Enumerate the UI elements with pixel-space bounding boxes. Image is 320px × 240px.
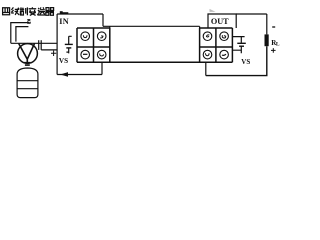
- char 线: [11, 7, 19, 15]
- wire IN to OUT (top interconnect): [103, 25, 200, 27]
- terminal screw IN top-right: [97, 32, 106, 41]
- OUT terminal grid frame: [200, 28, 233, 62]
- IN loop right drop: [102, 14, 104, 26]
- char 器: [46, 8, 54, 16]
- sensor tag glyph (small dark mark above transmitter bracket): [27, 20, 30, 24]
- terminal screw OUT bottom-left: [203, 50, 212, 59]
- char 送: [37, 7, 45, 15]
- battery VS (OUT side) top wire: [232, 37, 244, 43]
- bottom return wire to RL: [206, 46, 267, 75]
- IN loop left vertical wire: [56, 14, 58, 75]
- transmitter bracket outer L: [11, 23, 30, 44]
- terminal screw IN top-left: [81, 32, 90, 41]
- OUT bottom stub: [205, 62, 207, 75]
- IN loop top wire: [57, 13, 103, 15]
- char 变: [29, 7, 37, 15]
- plus label at RL: [271, 48, 276, 53]
- IN terminal grid frame: [77, 28, 110, 62]
- battery VS (OUT side) long plate: [237, 42, 246, 44]
- terminal screw OUT bottom-right: [220, 50, 229, 59]
- connector bar 2: [40, 40, 42, 50]
- terminal screw IN bottom-left: [81, 50, 90, 59]
- drop into OUT grid left edge: [199, 26, 201, 28]
- OUT label box: [208, 14, 236, 28]
- terminal screw OUT top-right: [220, 32, 229, 41]
- char 四: [3, 8, 10, 15]
- flowmeter base bars: [24, 63, 30, 65]
- connector bar 1: [38, 40, 40, 50]
- transmitter bracket inner L: [16, 27, 29, 42]
- battery VS (IN side) bottom lead: [66, 48, 68, 54]
- plus label near wire B: [51, 51, 56, 56]
- battery VS (IN side) short plate: [66, 47, 71, 49]
- battery VS (IN side) long plate: [65, 43, 73, 45]
- capsule inner line 1: [17, 80, 38, 82]
- flowmeter body (circle with X): [18, 44, 38, 64]
- middle wire grid-bottom rail (IN grid bottom, interconnect, OUT grid bottom): [77, 61, 232, 63]
- top wire OUT box to RL: [236, 13, 267, 15]
- svg-text:L: L: [276, 41, 280, 47]
- arrow left on IN bottom wire: [60, 72, 68, 77]
- ghost arrow above OUT box: [210, 9, 216, 12]
- battery VS (OUT side) bottom lead + wire: [232, 46, 241, 53]
- char 制: [20, 7, 28, 15]
- label 四线制变送器 (four-wire transmitter title, hand-drawn strokes): [3, 7, 54, 15]
- terminal screw OUT top-left: [203, 32, 212, 41]
- IN bottom wire riser to grid: [101, 62, 103, 74]
- minus label at RL: [272, 26, 275, 28]
- arrow right on IN top wire: [60, 11, 69, 14]
- wire B (lower signal wire): [41, 49, 57, 51]
- svg-text:OUT: OUT: [211, 17, 229, 26]
- svg-text:VS: VS: [59, 57, 68, 65]
- load resistor RL (solid): [265, 34, 269, 46]
- flowmeter X legs: [19, 44, 35, 63]
- battery VS (IN side) top lead with hook: [69, 36, 72, 44]
- junction drop into IN grid right edge: [109, 26, 111, 28]
- svg-text:VS: VS: [241, 58, 250, 66]
- battery VS (OUT side) short plate: [239, 45, 244, 47]
- terminal screw IN bottom-right: [97, 50, 106, 59]
- capsule inner line 2: [17, 88, 38, 90]
- RL top wire: [266, 14, 268, 34]
- probe capsule below flowmeter: [17, 68, 38, 98]
- svg-text:IN: IN: [59, 17, 69, 26]
- IN loop bottom wire: [57, 74, 102, 76]
- wire A (upper signal wire through flowmeter top): [11, 42, 57, 44]
